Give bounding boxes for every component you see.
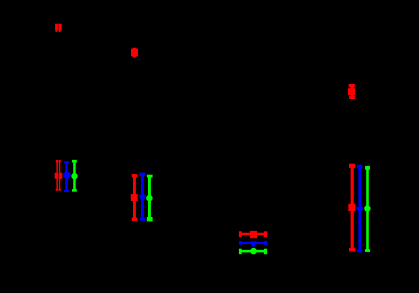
red errorbar top-right x=352 <box>348 84 355 99</box>
cluster1 blue errorbar <box>63 161 70 192</box>
cluster2 red errorbar <box>131 174 138 221</box>
cluster3 red errorbar <box>348 164 355 252</box>
legend blue entry <box>239 241 267 247</box>
cluster2 blue errorbar <box>139 173 146 221</box>
legend red entry <box>239 231 267 238</box>
cluster3 blue errorbar <box>356 165 363 253</box>
legend green entry <box>239 248 267 255</box>
cluster1 red errorbar 2 <box>59 160 63 191</box>
red square point x=134 <box>131 48 138 58</box>
red point top-left B (small errorbar) <box>58 24 61 32</box>
red point top-left A (small errorbar) <box>55 24 58 32</box>
cluster3 green errorbar <box>364 166 370 252</box>
cluster1 green errorbar <box>71 160 77 192</box>
cluster2 green errorbar <box>146 175 152 222</box>
cluster1 red errorbar 1 <box>55 160 58 191</box>
